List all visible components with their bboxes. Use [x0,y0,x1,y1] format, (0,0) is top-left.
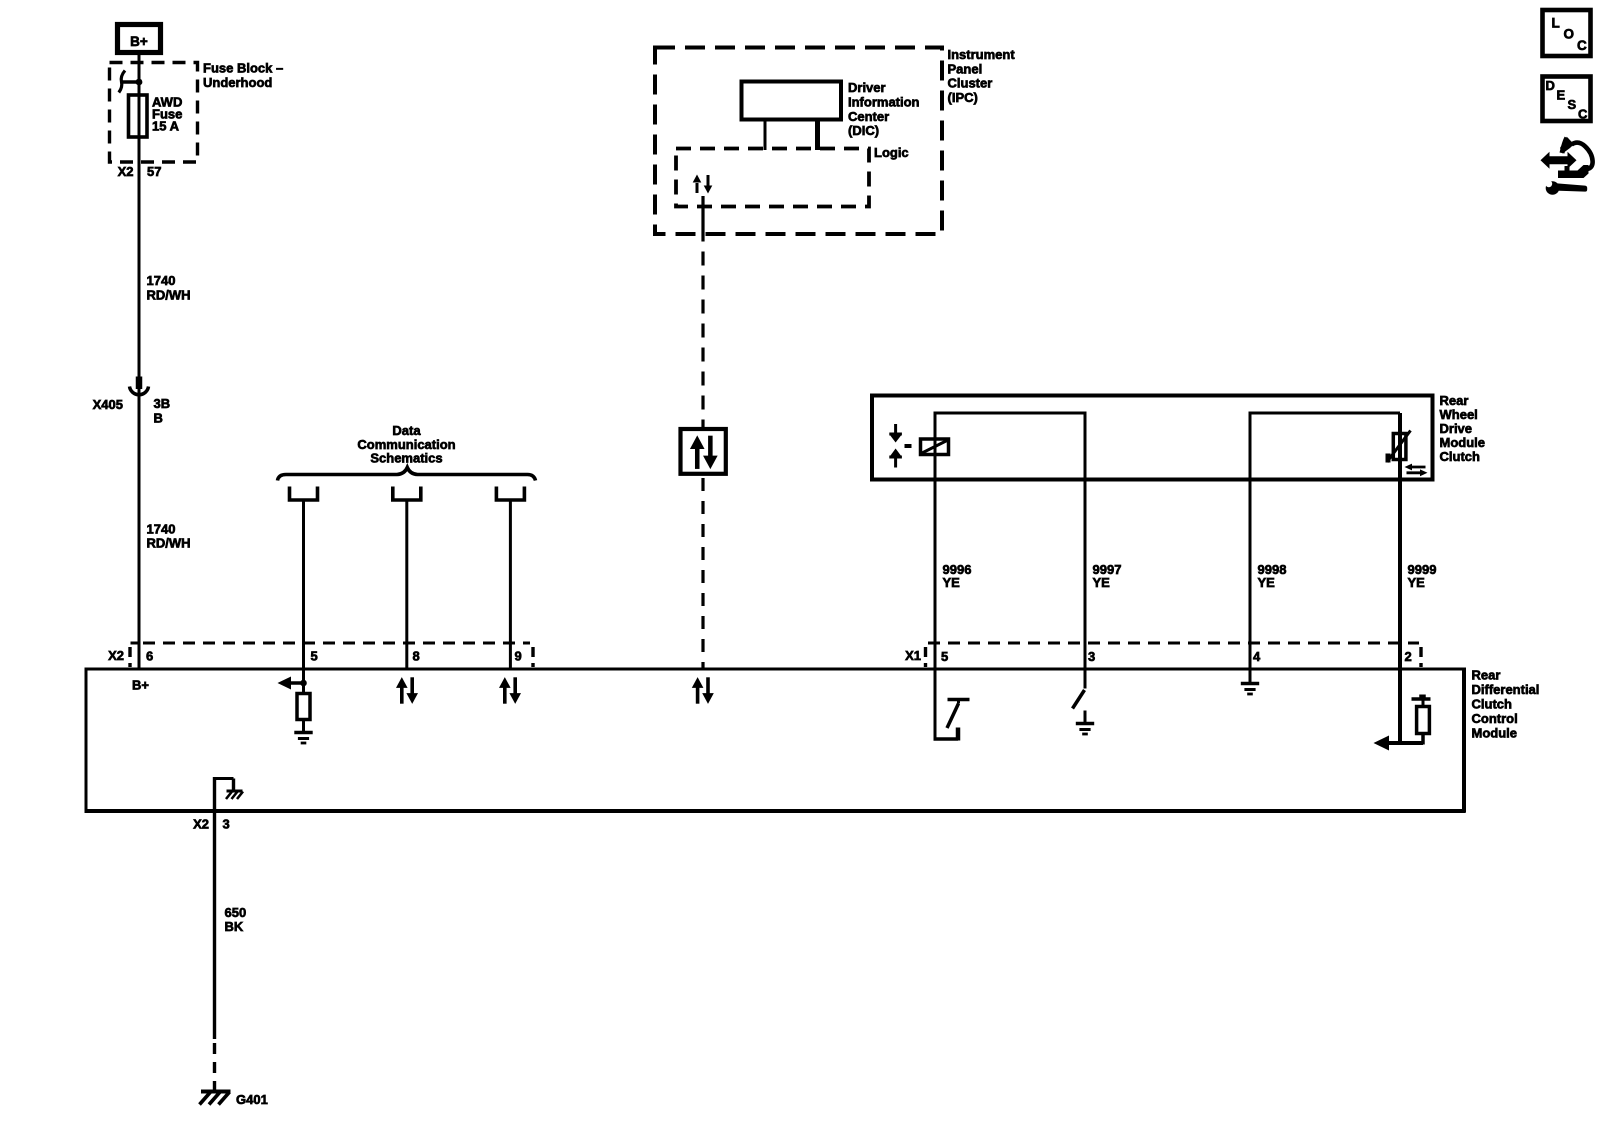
svg-text:Cluster: Cluster [948,76,993,91]
svg-text:Information: Information [848,94,920,109]
svg-text:Control: Control [1472,711,1518,726]
svg-text:Drive: Drive [1440,421,1473,436]
svg-text:E: E [1557,88,1566,103]
svg-text:X2: X2 [108,648,124,663]
svg-text:Differential: Differential [1472,682,1540,697]
svg-text:O: O [1564,27,1575,42]
svg-text:B: B [154,411,163,426]
svg-text:2: 2 [1405,649,1412,664]
svg-text:15 A: 15 A [152,119,180,134]
svg-text:(IPC): (IPC) [948,90,978,105]
svg-text:1740: 1740 [147,522,176,537]
svg-text:8: 8 [413,649,420,664]
svg-text:X405: X405 [93,397,123,412]
svg-text:D: D [1546,78,1555,93]
svg-text:Module: Module [1440,435,1486,450]
svg-text:1740: 1740 [147,273,176,288]
svg-text:3B: 3B [154,396,171,411]
svg-text:B+: B+ [130,34,148,49]
svg-text:Panel: Panel [948,61,983,76]
svg-text:X2: X2 [118,164,134,179]
svg-text:RD/WH: RD/WH [147,288,191,303]
svg-text:C: C [1577,38,1587,53]
svg-text:650: 650 [225,905,247,920]
svg-text:Schematics: Schematics [370,451,442,466]
svg-text:6: 6 [146,649,153,664]
svg-text:Fuse Block –: Fuse Block – [203,61,283,76]
svg-text:(DIC): (DIC) [848,123,879,138]
svg-text:Instrument: Instrument [948,47,1016,62]
svg-text:Clutch: Clutch [1472,697,1513,712]
svg-text:Rear: Rear [1440,393,1469,408]
svg-text:X1: X1 [905,648,921,663]
svg-text:3: 3 [223,817,230,832]
svg-text:YE: YE [1258,575,1276,590]
svg-text:Clutch: Clutch [1440,449,1481,464]
svg-text:Logic: Logic [874,145,909,160]
svg-text:Underhood: Underhood [203,75,272,90]
svg-text:Center: Center [848,109,889,124]
svg-text:YE: YE [1408,575,1426,590]
svg-text:YE: YE [943,575,961,590]
svg-text:Data: Data [392,423,421,438]
svg-text:Rear: Rear [1472,668,1501,683]
svg-text:RD/WH: RD/WH [147,536,191,551]
svg-text:S: S [1568,97,1577,112]
svg-text:9: 9 [515,649,522,664]
svg-text:4: 4 [1253,649,1261,664]
svg-text:3: 3 [1088,649,1095,664]
svg-text:B+: B+ [132,678,149,693]
svg-text:C: C [1578,107,1588,122]
svg-text:57: 57 [147,164,161,179]
svg-text:5: 5 [941,649,948,664]
svg-text:Driver: Driver [848,80,886,95]
svg-text:YE: YE [1093,575,1111,590]
svg-text:Wheel: Wheel [1440,407,1478,422]
svg-text:L: L [1552,16,1560,31]
svg-text:BK: BK [225,919,244,934]
svg-text:Module: Module [1472,725,1518,740]
svg-text:G401: G401 [236,1092,268,1107]
svg-text:5: 5 [311,649,318,664]
svg-text:X2: X2 [193,817,209,832]
